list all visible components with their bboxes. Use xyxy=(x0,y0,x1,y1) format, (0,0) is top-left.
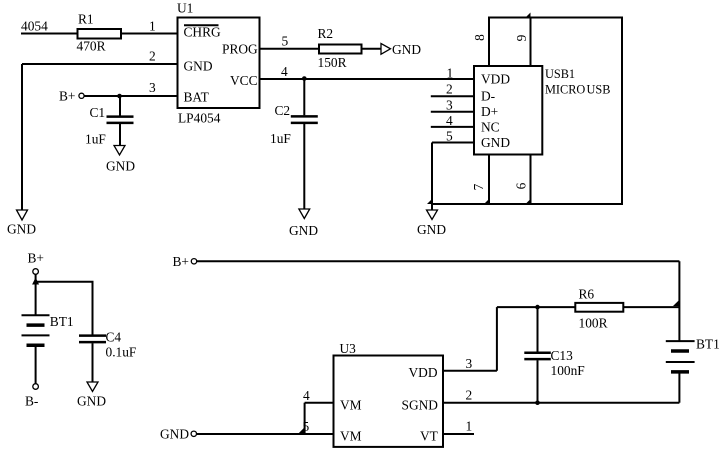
ground arrow left xyxy=(17,210,28,220)
wire R2 to GND port xyxy=(362,48,382,50)
svg-text:VM: VM xyxy=(340,398,362,413)
svg-text:GND: GND xyxy=(77,394,106,409)
junction tick 7 xyxy=(484,199,489,204)
svg-text:2: 2 xyxy=(149,49,156,64)
junction C2 xyxy=(302,76,307,81)
svg-text:MICRO: MICRO xyxy=(545,83,585,97)
capacitor C13 xyxy=(537,307,539,352)
junction tick pin5 xyxy=(427,199,432,204)
svg-text:8: 8 xyxy=(472,34,487,41)
svg-text:VDD: VDD xyxy=(409,365,438,380)
svg-text:GND: GND xyxy=(184,59,213,74)
wire R6 to battery rail xyxy=(623,306,679,308)
wire 4054 to R1 xyxy=(21,33,78,35)
svg-text:PROG: PROG xyxy=(222,42,258,57)
svg-text:BT1: BT1 xyxy=(696,337,719,352)
wire GND to U3 pin5 VM xyxy=(197,433,334,435)
svg-text:3: 3 xyxy=(446,97,453,112)
wire B+ rail to right xyxy=(197,260,679,262)
ground arrow C2 xyxy=(299,209,310,219)
wire vertical to GND xyxy=(21,64,23,210)
svg-text:SGND: SGND xyxy=(402,398,439,413)
junction pin5 riser xyxy=(299,427,305,433)
battery BT1 (left) xyxy=(22,314,50,316)
svg-text:100nF: 100nF xyxy=(551,363,585,378)
wire VDD riser xyxy=(496,307,498,371)
wire U3 pin2 SGND to battery xyxy=(443,402,679,404)
junction tick C4 branch xyxy=(32,278,39,285)
wire U3 pin3 VDD xyxy=(443,370,497,372)
svg-text:C13: C13 xyxy=(551,348,574,363)
svg-text:VDD: VDD xyxy=(481,72,510,87)
wire VDD row to R6 xyxy=(497,306,575,308)
svg-text:470R: 470R xyxy=(77,39,106,54)
svg-text:4: 4 xyxy=(303,388,310,403)
ground arrow C1 xyxy=(114,146,125,156)
node B- terminal xyxy=(33,384,39,390)
svg-text:GND: GND xyxy=(289,223,318,238)
wire B+ down to BT1 xyxy=(35,275,37,316)
wire USB1 pin3 xyxy=(431,111,474,113)
svg-text:2: 2 xyxy=(446,82,453,97)
svg-text:CHRG: CHRG xyxy=(184,25,222,40)
svg-text:4054: 4054 xyxy=(21,19,48,34)
wire BT1 bottom to SGND rail xyxy=(678,372,680,403)
svg-text:1: 1 xyxy=(466,419,473,434)
junction C13 bottom xyxy=(535,400,540,405)
ground port arrow right xyxy=(381,44,391,55)
wire to C4 xyxy=(36,282,93,335)
svg-text:150R: 150R xyxy=(318,55,347,70)
wire U1 pin2 GND xyxy=(22,63,177,65)
svg-text:D-: D- xyxy=(481,88,495,103)
svg-text:LP4054: LP4054 xyxy=(178,111,221,126)
svg-text:BT1: BT1 xyxy=(50,314,74,329)
wire U3 pin1 VT stub xyxy=(443,433,474,435)
resistor R6 xyxy=(575,303,623,312)
wire right rail down to BT1 xyxy=(678,261,680,341)
svg-text:R6: R6 xyxy=(579,287,595,302)
svg-text:4: 4 xyxy=(281,64,288,79)
ground arrow USB xyxy=(427,210,438,220)
wire BT1 to B- xyxy=(35,345,37,383)
capacitor C1 xyxy=(119,96,121,116)
ground arrow C4 xyxy=(87,382,98,392)
wire USB1 pin2 xyxy=(431,95,474,97)
svg-text:NC: NC xyxy=(481,119,500,134)
svg-text:3: 3 xyxy=(466,356,473,371)
svg-text:R2: R2 xyxy=(318,26,334,41)
svg-text:BAT: BAT xyxy=(184,90,209,105)
IC U3 box xyxy=(334,356,444,447)
svg-text:4: 4 xyxy=(446,113,453,128)
capacitor C4 xyxy=(79,334,106,337)
svg-text:GND: GND xyxy=(392,42,421,57)
svg-text:GND: GND xyxy=(160,427,189,442)
svg-text:1uF: 1uF xyxy=(85,132,106,147)
svg-text:1: 1 xyxy=(149,19,156,34)
svg-text:C1: C1 xyxy=(90,105,106,120)
junction C13 top xyxy=(535,305,540,310)
svg-text:USB: USB xyxy=(587,83,611,97)
svg-text:5: 5 xyxy=(282,34,289,49)
svg-text:0.1uF: 0.1uF xyxy=(106,345,137,360)
connector USB1 inner box xyxy=(474,66,542,155)
wire U3 pin4 VM xyxy=(305,402,334,404)
svg-text:C2: C2 xyxy=(275,103,291,118)
junction tick 6 xyxy=(526,199,531,204)
pin label CHRG with overline xyxy=(184,24,219,26)
connector USB1 outer shell xyxy=(489,18,622,205)
svg-text:B+: B+ xyxy=(28,251,44,266)
svg-text:1: 1 xyxy=(447,66,454,81)
svg-text:B+: B+ xyxy=(59,89,75,104)
wire U1 pin5 PROG to R2 xyxy=(260,48,319,50)
wire U1 pin3 BAT xyxy=(85,95,178,97)
svg-text:USB1: USB1 xyxy=(545,67,575,81)
wire USB1 pin5 xyxy=(432,142,474,144)
svg-text:1uF: 1uF xyxy=(270,131,291,146)
wire shell bottom extension xyxy=(432,203,489,205)
svg-text:GND: GND xyxy=(481,135,510,150)
svg-text:3: 3 xyxy=(149,80,156,95)
junction tick top xyxy=(526,13,531,18)
battery BT1 (right) xyxy=(666,340,695,342)
junction right rail xyxy=(673,300,680,306)
wire USB1 pin5 to ground xyxy=(431,143,433,211)
svg-text:VT: VT xyxy=(420,429,438,444)
svg-text:B-: B- xyxy=(25,394,38,409)
svg-text:U3: U3 xyxy=(340,341,357,356)
svg-text:9: 9 xyxy=(514,34,529,41)
svg-text:VM: VM xyxy=(340,429,362,444)
svg-text:GND: GND xyxy=(7,222,36,237)
wire pin4 riser xyxy=(304,403,306,434)
svg-text:2: 2 xyxy=(466,388,473,403)
svg-text:B+: B+ xyxy=(173,254,189,269)
svg-text:6: 6 xyxy=(514,182,529,189)
resistor R1 xyxy=(78,29,122,39)
wire USB1 pin4 xyxy=(431,126,474,128)
svg-text:GND: GND xyxy=(106,159,135,174)
wire R1 to U1 pin1 xyxy=(121,33,177,35)
svg-text:D+: D+ xyxy=(481,104,498,119)
svg-text:VCC: VCC xyxy=(230,73,258,88)
resistor R2 xyxy=(319,45,362,54)
junction C1 xyxy=(117,94,122,99)
svg-text:U1: U1 xyxy=(177,1,193,16)
pin 6 shell line bottom xyxy=(530,155,532,205)
svg-text:7: 7 xyxy=(471,183,486,190)
wire U1 pin4 VCC to USB1 pin1 xyxy=(260,78,474,80)
IC U1 (LP4054) box xyxy=(178,18,260,109)
svg-text:5: 5 xyxy=(303,419,310,434)
svg-text:5: 5 xyxy=(446,128,453,143)
svg-text:GND: GND xyxy=(417,222,446,237)
svg-text:100R: 100R xyxy=(579,316,608,331)
svg-text:R1: R1 xyxy=(78,12,94,27)
svg-text:C4: C4 xyxy=(106,330,122,345)
capacitor C2 xyxy=(303,79,305,115)
pin 9 shell line top xyxy=(530,18,532,67)
